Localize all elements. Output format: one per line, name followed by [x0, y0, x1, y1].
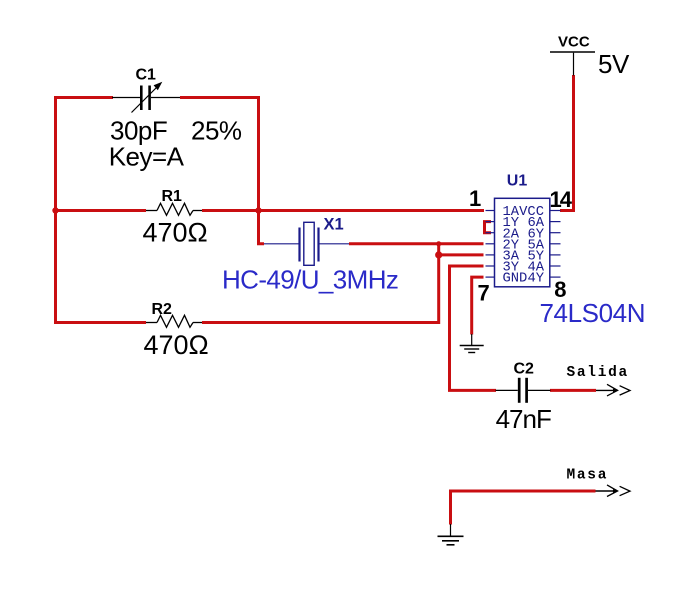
- svg-text:R2: R2: [152, 301, 173, 318]
- svg-text:Key=A: Key=A: [109, 142, 185, 172]
- svg-text:R1: R1: [162, 188, 183, 205]
- svg-text:GND: GND: [503, 272, 528, 287]
- svg-text:47nF: 47nF: [496, 404, 551, 434]
- svg-text:C2: C2: [514, 361, 535, 378]
- svg-text:14: 14: [550, 187, 573, 212]
- svg-text:Salida: Salida: [567, 365, 629, 381]
- svg-text:HC-49/U_3MHz: HC-49/U_3MHz: [222, 265, 398, 295]
- svg-text:5V: 5V: [598, 49, 630, 79]
- svg-text:C1: C1: [136, 67, 157, 84]
- svg-text:470Ω: 470Ω: [144, 330, 209, 360]
- svg-text:4Y: 4Y: [527, 272, 544, 287]
- svg-text:X1: X1: [324, 216, 344, 234]
- svg-text:470Ω: 470Ω: [143, 218, 208, 248]
- svg-text:VCC: VCC: [558, 34, 590, 51]
- svg-text:25%: 25%: [191, 116, 242, 146]
- svg-text:1: 1: [469, 186, 481, 211]
- svg-text:U1: U1: [507, 172, 528, 189]
- svg-text:Masa: Masa: [567, 468, 609, 484]
- svg-text:74LS04N: 74LS04N: [540, 298, 646, 328]
- svg-text:7: 7: [478, 281, 490, 306]
